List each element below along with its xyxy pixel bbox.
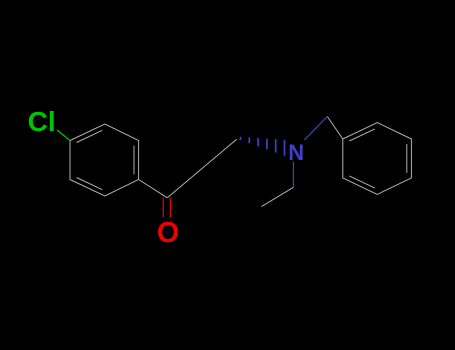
svg-text:N: N <box>288 140 304 165</box>
svg-text:Cl: Cl <box>28 106 56 137</box>
svg-text:O: O <box>157 217 179 249</box>
